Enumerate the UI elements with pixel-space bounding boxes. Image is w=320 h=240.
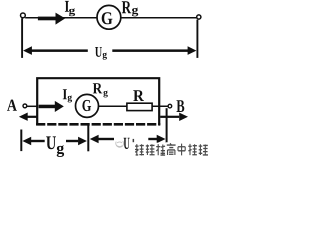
voltmeter box (dashed bottom) — [36, 123, 160, 126]
terminal A — [23, 104, 27, 108]
label Rg (bottom) — [93, 83, 108, 97]
label U (of UR span) — [124, 138, 130, 149]
dimension arrow UR (bottom right) — [90, 135, 166, 144]
label Ig (top) — [65, 1, 75, 16]
terminal (top circuit, right) — [197, 15, 201, 19]
measurement line (middle, below box) — [87, 125, 89, 151]
label Ug (bottom) — [46, 136, 64, 157]
terminal B — [168, 104, 172, 108]
measurement line (below B terminal) — [166, 108, 168, 145]
watermark logo circle — [116, 141, 124, 147]
subscript R remnant (of UR span, under watermark) — [133, 139, 135, 142]
wire (A terminal to box) — [27, 105, 38, 107]
extension line (below right terminal) — [196, 20, 198, 58]
resistor R — [127, 103, 152, 110]
wire (top, G to right terminal) — [121, 17, 197, 19]
dimension arrow Ug (top row, right half) — [112, 46, 196, 55]
watermark text 新课标高中物理 (gray strokes) — [135, 143, 208, 155]
label R (resistor) — [133, 90, 144, 101]
label Ug (top row) — [95, 47, 107, 60]
current arrow Ig (top) — [38, 13, 65, 25]
terminal (top circuit, left) — [21, 13, 26, 18]
measurement line (bottom left) — [20, 130, 22, 152]
wire (resistor to B terminal) — [152, 105, 168, 107]
label Rg (top) — [122, 1, 138, 16]
label Ig (bottom) — [63, 89, 72, 102]
watermark text 新课标高中物理 (halo) — [135, 144, 209, 156]
label B — [176, 100, 184, 112]
extension line (below left terminal) — [21, 18, 23, 58]
dimension arrow Ug (bottom) — [22, 137, 87, 146]
galvanometer G (top) — [97, 5, 121, 29]
dimension arrow Ug (top row, left half) — [23, 46, 88, 55]
galvanometer G (bottom) — [76, 94, 99, 117]
span arrow (out-left of box) — [19, 113, 37, 121]
current arrow Ig (bottom) — [39, 101, 64, 112]
wire (G to resistor R) — [98, 105, 126, 107]
label A — [7, 100, 17, 111]
span arrow (out-right of box) — [160, 113, 188, 121]
wire (top, terminal to G) — [25, 17, 97, 19]
voltmeter box (solid top/sides) — [37, 78, 159, 125]
